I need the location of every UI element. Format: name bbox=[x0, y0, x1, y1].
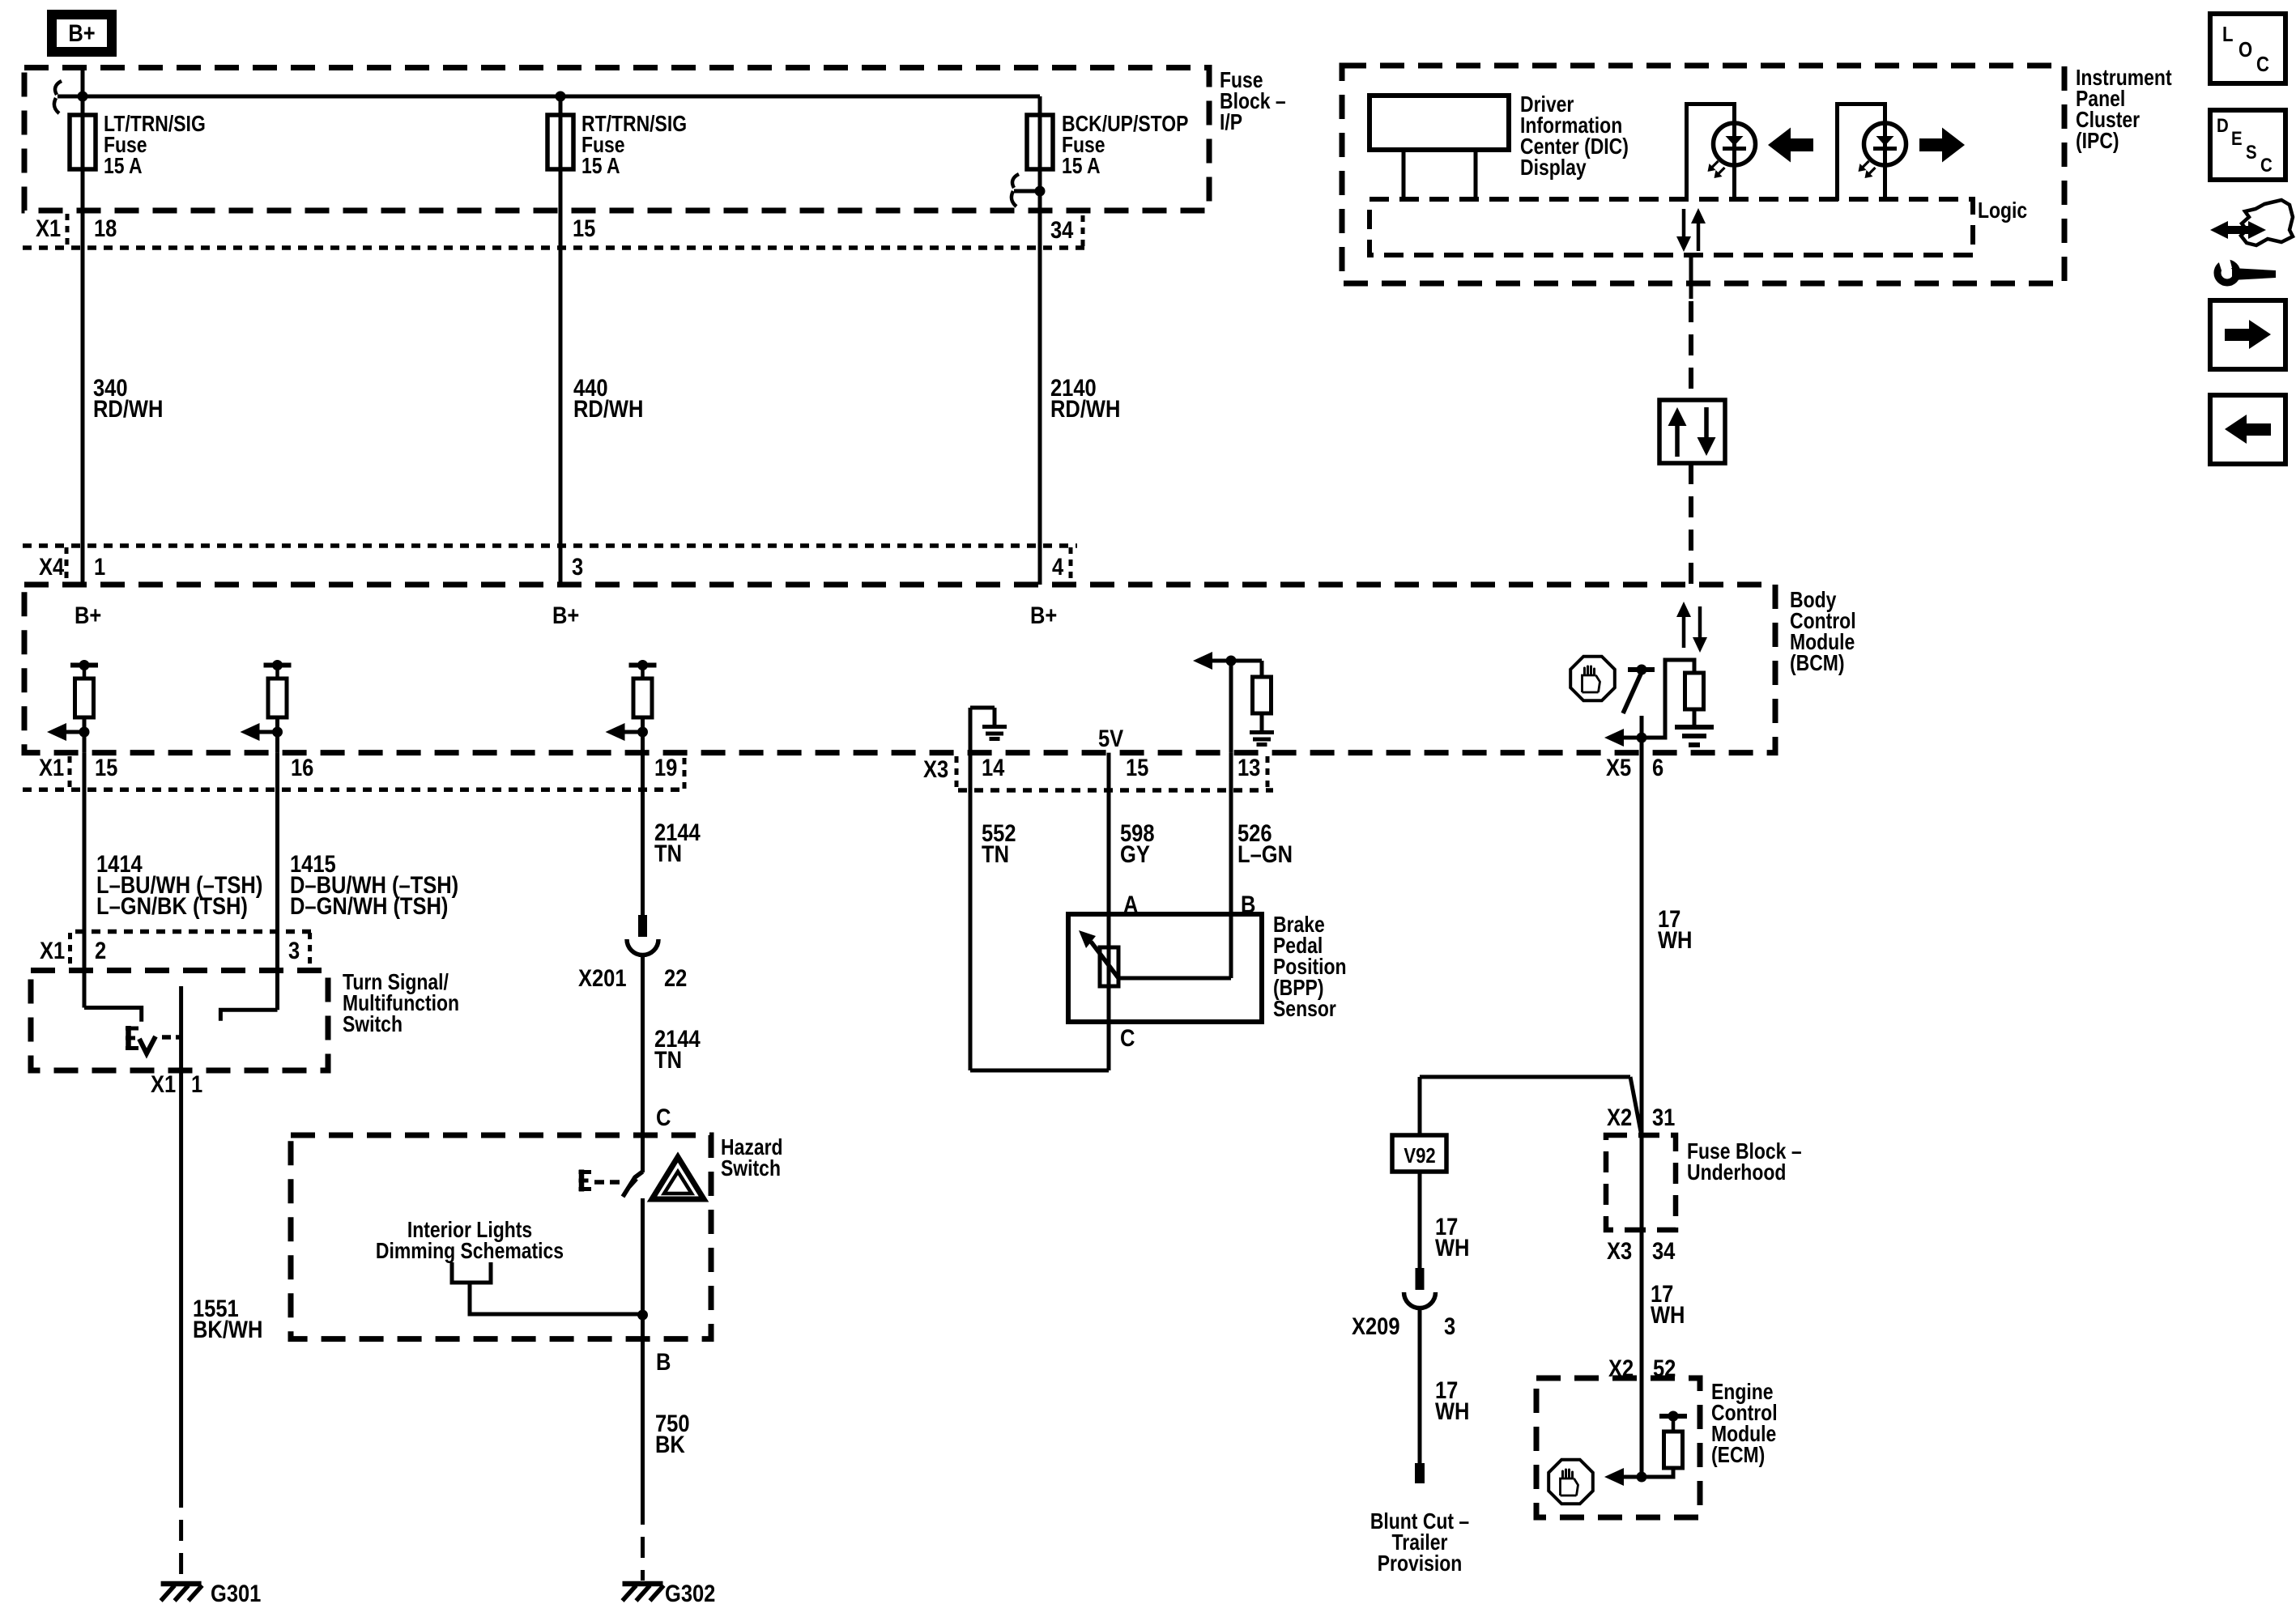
svg-text:X2: X2 bbox=[1607, 1104, 1632, 1130]
svg-text:C: C bbox=[2260, 154, 2273, 176]
svg-text:C: C bbox=[656, 1104, 671, 1130]
svg-text:C: C bbox=[1120, 1024, 1135, 1051]
svg-text:34: 34 bbox=[1652, 1237, 1676, 1264]
svg-text:V92: V92 bbox=[1404, 1144, 1435, 1168]
svg-text:B+: B+ bbox=[552, 602, 579, 628]
svg-text:31: 31 bbox=[1652, 1104, 1675, 1130]
svg-text:HazardSwitch: HazardSwitch bbox=[721, 1135, 783, 1181]
svg-text:X1: X1 bbox=[36, 215, 61, 241]
svg-text:13: 13 bbox=[1237, 754, 1260, 781]
svg-text:15: 15 bbox=[1126, 754, 1148, 781]
svg-text:G302: G302 bbox=[665, 1580, 715, 1606]
svg-text:B: B bbox=[656, 1348, 671, 1375]
svg-text:C: C bbox=[2256, 53, 2269, 76]
svg-text:X3: X3 bbox=[1607, 1237, 1632, 1264]
svg-text:E: E bbox=[2231, 127, 2243, 149]
svg-text:3: 3 bbox=[572, 553, 583, 580]
svg-text:Fuse Block –Underhood: Fuse Block –Underhood bbox=[1687, 1139, 1802, 1185]
svg-text:16: 16 bbox=[291, 754, 313, 781]
svg-text:4: 4 bbox=[1052, 553, 1064, 580]
svg-text:B+: B+ bbox=[1030, 602, 1057, 628]
svg-text:22: 22 bbox=[664, 964, 687, 991]
svg-text:B+: B+ bbox=[68, 19, 95, 46]
svg-text:15: 15 bbox=[95, 754, 117, 781]
svg-text:14: 14 bbox=[982, 754, 1005, 781]
svg-text:X201: X201 bbox=[578, 964, 627, 991]
svg-text:15: 15 bbox=[573, 215, 595, 241]
svg-text:X1: X1 bbox=[40, 937, 65, 964]
svg-text:O: O bbox=[2238, 38, 2252, 62]
svg-text:X1: X1 bbox=[39, 754, 64, 781]
svg-text:18: 18 bbox=[94, 215, 117, 241]
svg-text:L: L bbox=[2222, 23, 2233, 46]
svg-text:D: D bbox=[2217, 114, 2229, 136]
svg-text:3: 3 bbox=[1444, 1313, 1455, 1339]
svg-text:S: S bbox=[2246, 141, 2257, 163]
svg-text:750BK: 750BK bbox=[655, 1410, 690, 1457]
svg-text:X4: X4 bbox=[39, 553, 65, 580]
svg-text:Logic: Logic bbox=[1978, 198, 2027, 223]
svg-text:B+: B+ bbox=[75, 602, 101, 628]
svg-text:X5: X5 bbox=[1606, 754, 1631, 781]
svg-text:34: 34 bbox=[1050, 216, 1074, 243]
svg-text:X209: X209 bbox=[1352, 1313, 1400, 1339]
svg-text:6: 6 bbox=[1652, 754, 1663, 781]
svg-text:598GY: 598GY bbox=[1120, 819, 1155, 867]
svg-text:1: 1 bbox=[191, 1070, 202, 1097]
svg-text:3: 3 bbox=[288, 937, 300, 964]
svg-text:X3: X3 bbox=[923, 755, 948, 782]
svg-text:1: 1 bbox=[94, 553, 105, 580]
svg-text:G301: G301 bbox=[211, 1580, 261, 1606]
svg-text:19: 19 bbox=[654, 754, 677, 781]
svg-text:X1: X1 bbox=[151, 1070, 176, 1097]
svg-text:2: 2 bbox=[95, 937, 106, 964]
svg-text:5V: 5V bbox=[1098, 725, 1124, 751]
